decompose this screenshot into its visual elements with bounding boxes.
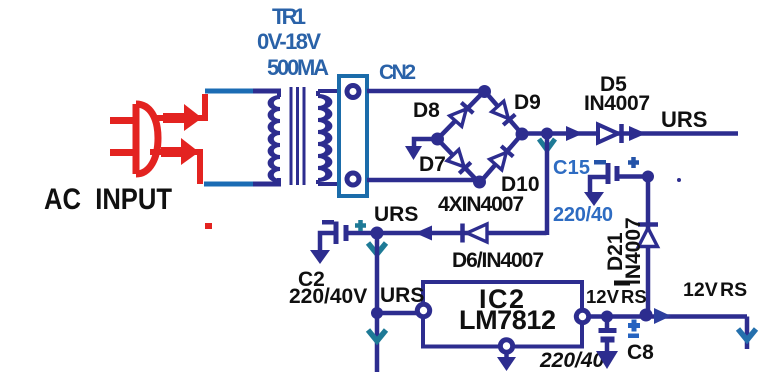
wire transformer primary top — [205, 89, 255, 94]
svg-text:D9: D9 — [514, 91, 541, 114]
wire CN2 to bridge bottom — [367, 178, 480, 183]
svg-text:IN4007: IN4007 — [584, 92, 650, 115]
wire secondary to CN2 — [318, 89, 339, 93]
C8 ground arrow — [596, 351, 618, 369]
svg-text:220/40: 220/40 — [553, 204, 613, 226]
junction node C2/URS — [371, 227, 384, 240]
flow arrow below IC2 node (teal) — [368, 330, 386, 341]
svg-text:CN2: CN2 — [379, 61, 416, 84]
svg-text:12VRS: 12VRS — [586, 286, 647, 307]
C2 minus sign — [322, 220, 334, 225]
CN2 pin 2 — [347, 173, 359, 185]
junction node C15 right — [642, 171, 654, 183]
wire bridge output URS rail — [522, 131, 738, 136]
wire D21 vertical — [646, 177, 651, 314]
C2 ground arrow — [310, 250, 330, 264]
svg-text:500MA: 500MA — [267, 55, 329, 80]
bridge node bottom — [473, 176, 486, 189]
transformer core — [291, 87, 304, 185]
wire output rail corner down — [745, 317, 750, 350]
transformer TR1 primary coil — [271, 91, 280, 184]
current arrow on D6 line — [415, 226, 432, 241]
svg-text:URS: URS — [661, 107, 707, 132]
stray red dot — [205, 223, 212, 229]
C2 plus sign — [355, 220, 366, 231]
IC2 gnd arrow — [504, 353, 509, 358]
svg-text:AC INPUT: AC INPUT — [44, 183, 172, 216]
diode D9 — [492, 101, 516, 125]
wire red plug to transformer — [150, 94, 206, 184]
flow arrow below junction (teal) — [539, 139, 555, 150]
junction node C8 — [601, 311, 613, 323]
wire IC2 output rail — [590, 314, 747, 319]
flow arrow output end (teal) — [738, 329, 756, 340]
svg-text:220/40V: 220/40V — [289, 285, 367, 308]
svg-text:C15: C15 — [553, 157, 590, 179]
wire C2 node down — [375, 233, 380, 372]
wire junction down to D6 line — [545, 133, 550, 235]
capacitor C2 — [320, 222, 377, 251]
capacitor C15 — [590, 163, 648, 192]
diode D5 — [598, 125, 618, 143]
black dash above RS — [614, 281, 630, 286]
svg-text:12VRS: 12VRS — [683, 279, 747, 301]
svg-text:URS: URS — [374, 203, 418, 226]
AC plug P1 — [110, 104, 158, 174]
diode D7 — [447, 150, 471, 174]
IC2 out pin — [576, 310, 588, 322]
bridge node left — [431, 133, 444, 146]
flow arrow below C2 node (teal) — [368, 243, 386, 254]
svg-text:D8: D8 — [413, 99, 440, 122]
CN2 pin 1 — [347, 86, 359, 98]
bridge left stub wire — [414, 139, 438, 148]
transformer TR1 secondary coil — [318, 91, 329, 184]
diode D21 — [639, 228, 658, 247]
C8 plus sign — [628, 320, 640, 332]
wire to IC2 input — [377, 311, 418, 316]
C15 ground arrow — [584, 192, 604, 206]
capacitor C8 — [605, 316, 610, 328]
stray dot — [677, 178, 681, 182]
AC plug arrows — [161, 104, 202, 165]
svg-text:4XIN4007: 4XIN4007 — [438, 193, 524, 216]
IC2 box — [423, 282, 582, 347]
diode D8 — [450, 103, 474, 127]
current arrow 2 on URS rail — [629, 126, 646, 141]
IC2 gnd pin — [500, 340, 512, 352]
svg-text:C8: C8 — [627, 341, 654, 364]
junction node bridge output — [541, 128, 553, 140]
svg-text:D7: D7 — [419, 153, 446, 176]
junction node IC2 input — [371, 307, 383, 319]
svg-text:220/40: 220/40 — [539, 349, 605, 372]
svg-text:URS: URS — [380, 284, 424, 307]
C15 plus sign — [628, 157, 639, 168]
wire transformer primary bottom — [204, 182, 255, 187]
C8 minus sign — [628, 334, 639, 339]
bridge rectifier arms — [438, 91, 523, 183]
diode D6 — [467, 224, 487, 242]
diode D10 — [490, 146, 514, 170]
junction node D21 bottom — [640, 309, 653, 322]
wire D6 line — [377, 231, 547, 236]
connector CN2 — [339, 76, 367, 196]
C15 minus sign — [594, 160, 606, 165]
svg-text:IN4007: IN4007 — [622, 217, 645, 285]
svg-text:TR1: TR1 — [272, 4, 306, 29]
wire CN2 to bridge top — [367, 89, 484, 94]
bridge node right — [516, 128, 529, 141]
svg-text:0V-18V: 0V-18V — [257, 29, 321, 54]
current arrow on URS rail — [566, 126, 583, 141]
IC2 input pin — [417, 304, 429, 316]
current arrow on output rail — [654, 308, 671, 324]
svg-text:LM7812: LM7812 — [459, 305, 556, 335]
bridge node top — [478, 85, 491, 98]
svg-text:D6/IN4007: D6/IN4007 — [452, 249, 544, 272]
bridge left stub arrow — [405, 146, 422, 160]
